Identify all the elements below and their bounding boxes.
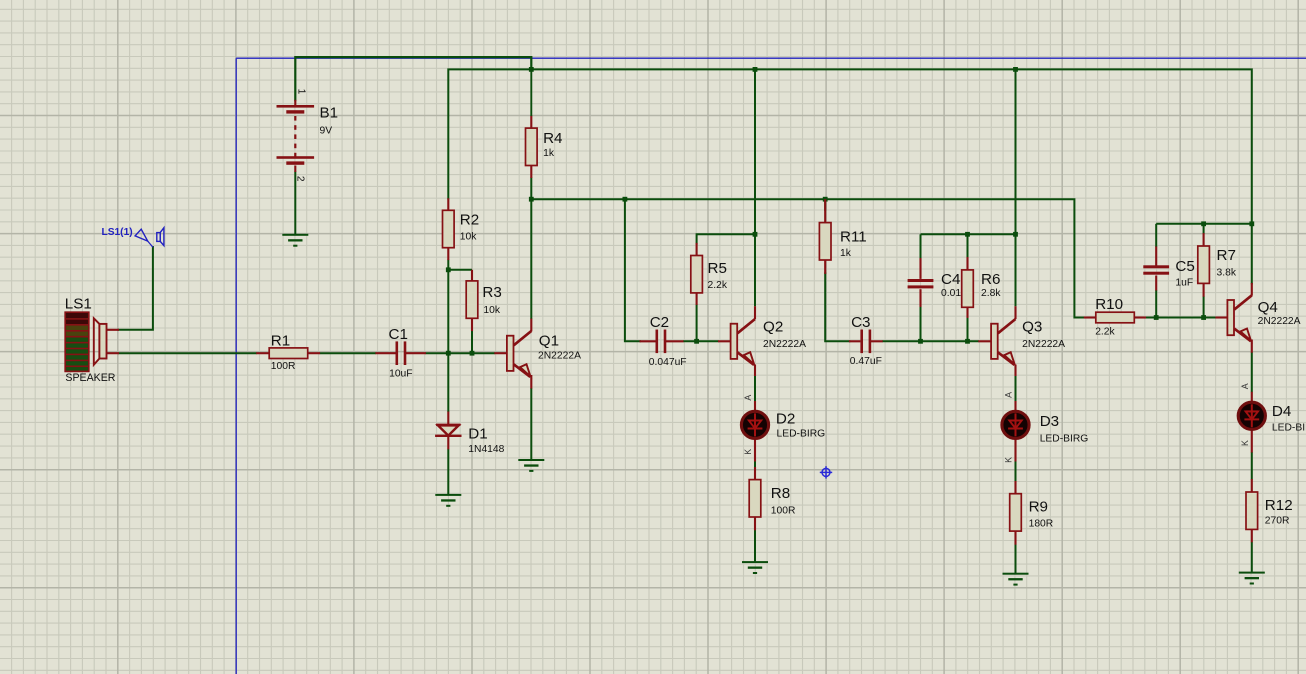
label R4 [543,130,562,147]
svg-text:2: 2 [295,176,306,182]
junction C4-R6 link/Q3 column [1013,232,1018,237]
pin stubs LED D2 [754,401,756,462]
svg-text:R5: R5 [708,260,727,277]
wire R12 to ground [1251,542,1253,572]
label R1 [271,332,290,349]
value label 100R [771,505,796,516]
svg-text:R7: R7 [1217,247,1236,264]
pin stubs R9 [1014,481,1016,545]
svg-text:2.8k: 2.8k [981,288,1001,299]
pin stubs R3 [471,270,473,331]
svg-text:0.47uF: 0.47uF [850,356,882,367]
value label 1k [840,248,852,259]
value label 1k [543,148,555,159]
pin stubs R1 [256,352,320,354]
junction R2/R3 branch [446,267,451,272]
svg-text:K: K [1004,457,1014,463]
value label 9V [320,126,333,137]
pin stub Q4 base [1215,316,1228,318]
svg-text:C3: C3 [851,314,870,331]
svg-text:R3: R3 [482,284,501,301]
value label SPEAKER [65,372,115,384]
junction base wire/R3 [470,351,475,356]
svg-text:C4: C4 [941,271,960,288]
label R9 [1029,499,1048,516]
value label LED-BIRG [1272,423,1306,434]
pin stubs D1 [447,412,449,450]
svg-text:C1: C1 [389,326,408,343]
svg-text:9V: 9V [320,126,333,137]
svg-text:K: K [743,449,753,455]
wire R8 to ground [754,530,756,562]
capacitor C5 body [1143,265,1169,274]
pin stub Q1 emitter [530,375,532,389]
value label 10k [483,305,500,316]
battery pin 2 label [295,176,306,182]
junction R6 top [965,232,970,237]
wire C1 to Q1 base [425,352,494,354]
svg-text:B1: B1 [320,104,339,121]
junction bus2/C2 branch [623,197,628,202]
wire Q1 emitter to ground [530,388,532,459]
wire speaker top pin up to terminal [119,247,153,330]
wire Q3 emitter to LED D3 [1015,376,1017,402]
label R6 [981,271,1000,288]
ground (D1) [435,494,461,507]
svg-text:Q1: Q1 [539,332,559,349]
value label 180R [1029,519,1054,530]
pin stubs speaker [107,330,120,353]
wire Q2 collector column [754,69,756,306]
label D3 [1040,413,1059,430]
diode D1 [435,424,461,437]
pin stub Q3 collector [1014,306,1016,319]
wire Q3 collector column [1015,69,1017,306]
value label 3.8k [1217,267,1237,278]
junction bus2/Q1 collector [529,197,534,202]
resistor R1 body [269,348,308,359]
ground (R9) [1003,573,1029,586]
svg-text:K: K [1240,440,1250,446]
svg-text:D2: D2 [776,411,795,428]
value label 270R [1265,516,1290,527]
pin stubs C4 [919,258,921,307]
ground (R12) [1239,572,1265,585]
label C4 [941,271,960,288]
pin stubs R2 [447,198,449,260]
svg-text:Q4: Q4 [1258,299,1278,316]
LED D2 anode label [743,395,753,401]
wire R6 bottom stub [967,317,969,341]
wire R3 bottom [471,331,473,354]
label D4 [1272,403,1291,420]
svg-text:R8: R8 [771,485,790,502]
label B1 [320,104,339,121]
svg-text:R11: R11 [840,228,867,245]
resistor R3 body [466,281,478,318]
wire battery-bottom to ground [294,172,296,235]
svg-text:10k: 10k [460,232,477,243]
node LS1(1) terminal arrow [135,229,153,247]
svg-text:LED-BIRG: LED-BIRG [1040,434,1089,445]
label R2 [460,212,479,229]
LED D4 [1238,402,1265,429]
wire C5 column top [1155,224,1157,247]
pin stub Q4 emitter [1251,340,1253,353]
origin marker (blue crosshair) [820,466,832,478]
label R7 [1217,247,1236,264]
resistor R7 body [1198,246,1210,283]
resistor R2 body [443,210,455,247]
ground (Q1 emitter) [518,459,544,472]
resistor R11 body [819,223,831,260]
wire C5 column bottom [1155,290,1157,318]
wire Q4 emitter to LED D4 [1251,352,1253,392]
resistor R8 body [749,480,761,517]
value label 2N2222A [1022,339,1065,350]
svg-text:2N2222A: 2N2222A [538,351,581,362]
pin stubs LED D3 [1014,401,1016,462]
svg-text:R9: R9 [1029,499,1048,516]
wire bus1 top rail (R2 corner to Q4 collector column) [448,69,1252,283]
svg-text:R4: R4 [543,130,562,147]
wire LED D2 to R8 [754,461,756,468]
svg-text:1N4148: 1N4148 [468,444,504,455]
junction R5 link/Q2 collector [753,232,758,237]
LED D4 cathode label [1240,440,1250,446]
svg-text:LED-BIRG: LED-BIRG [777,429,826,440]
wire R1 to C1 [320,352,376,354]
LED D2 cathode label [743,449,753,455]
pin stub Q4 collector [1251,283,1253,296]
wire C2 branch from bus2 [625,199,640,341]
junction bus1/Q3 collector [1013,67,1018,72]
label Q2 [763,319,783,336]
svg-text:A: A [1240,383,1250,389]
wire R4 top feed [530,69,532,116]
pin stub Q1 collector [530,319,532,332]
LED D2 [741,411,768,438]
svg-text:Q3: Q3 [1022,319,1042,336]
wire R5 bottom [696,304,698,341]
label C1 [389,326,408,343]
svg-text:LED-BIRG: LED-BIRG [1272,423,1306,434]
junction Q4 base/C5 [1154,315,1159,320]
pin stub Q2 base [718,340,731,342]
transistor Q1 [507,331,531,377]
wire R11 top stub [824,199,826,211]
value label 2.2k [708,280,728,291]
wire bus2 rail (Q1 collector to R10 corner) [531,199,1084,317]
svg-text:1: 1 [296,89,307,95]
value label LED-BIRG [1040,434,1089,445]
LED D3 [1002,411,1029,438]
battery B1 symbol [277,105,315,165]
svg-text:180R: 180R [1029,519,1054,530]
pin stubs LED D4 [1251,392,1253,453]
label R3 [482,284,501,301]
pin stubs C3 [849,340,883,342]
junction bus1/Q2 collector [753,67,758,72]
wire R6 top stub [967,234,969,257]
resistor R9 body [1010,494,1022,531]
svg-text:R1: R1 [271,332,290,349]
wire D1 to ground [447,449,449,495]
value label 2.8k [981,288,1001,299]
pin stub Q3 emitter [1014,365,1016,377]
label C5 [1175,258,1194,275]
wire R4/Q1 collector column [530,178,532,320]
svg-text:LS1: LS1 [65,296,92,313]
svg-text:SPEAKER: SPEAKER [65,372,115,384]
label C3 [851,314,870,331]
value label 10k [460,232,477,243]
resistor R6 body [962,270,974,307]
label R10 [1095,296,1123,313]
label Q4 [1258,299,1278,316]
wire C4 column top [920,234,922,258]
svg-text:2.2k: 2.2k [1095,327,1115,338]
junction Q3 base/C4 [918,339,923,344]
pin stub Q2 collector [754,306,756,319]
pin stubs R12 [1251,479,1253,542]
pin stubs R10 [1084,316,1146,318]
wire R2/D1 column mid [447,260,449,412]
wire R11 bottom to C3 [825,273,849,341]
wire battery-top to bus1 jog [295,57,531,100]
svg-text:270R: 270R [1265,516,1290,527]
svg-text:0.047uF: 0.047uF [649,357,687,368]
svg-text:D1: D1 [468,426,487,443]
resistor R12 body [1246,492,1258,529]
resistor R4 body [526,128,538,165]
label R8 [771,485,790,502]
svg-text:1k: 1k [543,148,555,159]
wire C3 to Q3 base [882,340,979,342]
svg-text:2N2222A: 2N2222A [1258,316,1301,327]
speaker LS1 symbol [65,312,106,371]
value label 0.47uF [850,356,882,367]
ground (battery) [282,234,308,247]
transistor Q3 [991,319,1015,365]
value label 10uF [389,369,412,380]
ground (R8) [742,561,768,574]
svg-text:C5: C5 [1175,258,1194,275]
wire R3 branch link [448,269,472,271]
LED D4 anode label [1240,383,1250,389]
pin stubs R8 [754,467,756,530]
label Q1 [539,332,559,349]
pin stub Q1 base [494,352,507,354]
svg-text:C2: C2 [650,314,669,331]
capacitor C2 body [656,330,667,354]
value label 100R [271,361,296,372]
svg-text:D4: D4 [1272,403,1291,420]
junction Q4 base/R7 [1201,315,1206,320]
pin stub Q3 base [978,340,991,342]
value label 1uF [1175,277,1193,288]
capacitor C1 body [396,341,407,365]
audio probe icon [157,228,164,246]
label D2 [776,411,795,428]
label LS1 [65,296,92,313]
value label 0.01uF [941,288,973,299]
label R12 [1265,497,1293,514]
LED D3 anode label [1004,392,1014,398]
svg-text:2N2222A: 2N2222A [763,339,806,350]
value label 2N2222A [763,339,806,350]
wire C5/R7 top link [1156,223,1252,225]
wire R5 top link [697,234,755,243]
battery pin 1 label [296,89,307,95]
junction Q3 base/R6 [965,339,970,344]
svg-text:100R: 100R [771,505,796,516]
svg-text:3.8k: 3.8k [1217,267,1237,278]
wire C4/R6 top link [921,233,1016,235]
svg-text:Q2: Q2 [763,319,783,336]
svg-text:LS1(1): LS1(1) [102,227,133,238]
svg-text:10uF: 10uF [389,369,412,380]
pin stubs R6 [966,257,968,318]
resistor R5 body [691,256,703,293]
wire LED D3 to R9 [1015,461,1017,482]
label D1 [468,426,487,443]
svg-text:A: A [743,395,753,401]
junction bus2/R11 [823,197,828,202]
label Q3 [1022,319,1042,336]
label R5 [708,260,727,277]
value label 1N4148 [468,444,504,455]
svg-text:100R: 100R [271,361,296,372]
LED D3 cathode label [1004,457,1014,463]
wire R7 bottom stub [1203,296,1205,317]
wire C2 to Q2 base [683,340,719,342]
svg-text:R2: R2 [460,212,479,229]
pin stub battery top [294,100,296,105]
pin stubs R7 [1203,233,1205,297]
pin stubs C1 [375,352,426,354]
sheet border (blue) [236,58,1306,674]
value label 2N2222A [1258,316,1301,327]
pin stub Q2 emitter [754,365,756,377]
wire R10 to Q4 base [1146,317,1216,319]
value label LED-BIRG [777,429,826,440]
label R11 [840,228,867,245]
resistor R10 body [1096,312,1135,323]
wire R7 top stub [1203,224,1205,234]
label C2 [650,314,669,331]
wire LED D4 to R12 [1251,452,1253,480]
svg-text:R12: R12 [1265,497,1293,514]
svg-text:1uF: 1uF [1175,277,1193,288]
svg-text:A: A [1004,392,1014,398]
wire main signal (speaker to R1) [119,352,257,354]
pin stubs R5 [696,243,698,305]
junction bus1/battery/R4 [529,67,534,72]
svg-text:2.2k: 2.2k [708,280,728,291]
svg-text:D3: D3 [1040,413,1059,430]
junction R7 top [1201,221,1206,226]
transistor Q4 [1227,295,1251,341]
pin stubs R11 [824,199,826,274]
junction Q4 column/C5-R7 link [1249,221,1254,226]
wire R9 to ground [1015,544,1017,574]
svg-text:10k: 10k [483,305,500,316]
svg-text:R6: R6 [981,271,1000,288]
capacitor C3 body [860,330,871,354]
pin stubs C2 [640,340,684,342]
value label 0.047uF [649,357,687,368]
pin stubs R4 [530,116,532,179]
value label 2N2222A [538,351,581,362]
svg-text:1k: 1k [840,248,852,259]
junction Q2 base/R5 [694,339,699,344]
svg-text:R10: R10 [1095,296,1123,313]
wire C4 column bottom [920,306,922,341]
junction base wire/R2-D1 column [446,351,451,356]
pin stubs C5 [1155,247,1157,291]
svg-text:2N2222A: 2N2222A [1022,339,1065,350]
capacitor C4 body [908,279,934,288]
pin stub battery bottom [294,166,296,173]
wire Q2 emitter to LED D2 [754,376,756,402]
transistor Q2 [731,319,755,365]
value label 2.2k [1095,327,1115,338]
net label LS1(1) [102,227,133,238]
